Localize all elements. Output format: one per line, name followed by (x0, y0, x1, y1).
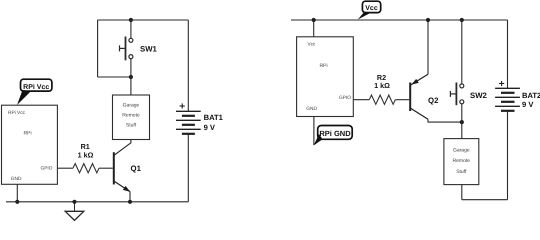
svg-text:1 kΩ: 1 kΩ (78, 151, 94, 160)
wire garage box 1 to Q1 collector (114, 140, 131, 156)
node junction Q2 rail (426, 18, 430, 22)
svg-text:BAT1: BAT1 (204, 113, 224, 122)
wire R1 to Q1 base (99, 167, 113, 169)
node junction Q2 SW2 (460, 120, 464, 124)
callout RPi Vcc (17, 79, 52, 105)
node junction ground stub (72, 200, 76, 204)
box RPi 1 (2, 105, 58, 184)
svg-text:RPi: RPi (320, 63, 328, 69)
svg-text:Remote: Remote (453, 158, 471, 164)
svg-text:RPi: RPi (24, 131, 32, 137)
wire right rail bottom BAT1 (187, 134, 189, 202)
wire right rail top BAT1 (187, 20, 189, 111)
node junction RPi2 Vcc (312, 18, 316, 22)
svg-text:Vcc: Vcc (365, 5, 378, 12)
wire GND1 down (16, 184, 18, 202)
switch SW1 (120, 37, 133, 61)
svg-text:RPi GND: RPi GND (319, 129, 351, 138)
svg-text:RPi Vcc: RPi Vcc (8, 110, 26, 116)
wire BAT2 top lead (507, 20, 509, 88)
wire Q2 collector to node (428, 119, 462, 122)
node junction SW2 rail (460, 18, 464, 22)
box RPi 2 (297, 37, 354, 117)
svg-text:SW2: SW2 (470, 91, 488, 100)
wire GPIO1 to R1 (57, 167, 73, 169)
svg-text:RPi Vcc: RPi Vcc (23, 83, 49, 91)
svg-text:9 V: 9 V (204, 123, 216, 132)
wire rail to RPi2 (313, 20, 315, 37)
wire node to garage box 2 (461, 122, 463, 139)
svg-text:Garage: Garage (123, 102, 140, 108)
svg-text:BAT2: BAT2 (522, 91, 540, 100)
svg-text:1 kΩ: 1 kΩ (374, 81, 390, 90)
wire Q1 emitter down (129, 192, 131, 202)
node junction GND1 rail (15, 200, 19, 204)
wire R2 to Q2 base (395, 99, 409, 101)
svg-text:Remote: Remote (122, 113, 140, 119)
callout RPi GND (314, 126, 353, 146)
svg-text:GND: GND (306, 106, 317, 112)
wire SW2 bottom lead (461, 104, 463, 122)
box garage remote stuff 2 (444, 139, 479, 185)
svg-text:GPIO: GPIO (339, 95, 351, 101)
svg-text:GND: GND (11, 176, 22, 182)
switch SW2 (450, 83, 463, 106)
node junction SW1 bottom (129, 75, 133, 79)
svg-text:SW1: SW1 (140, 45, 158, 54)
wire Q2 emitter to rail (427, 20, 429, 74)
ground (65, 202, 84, 221)
transistor Q1 (114, 152, 131, 192)
callout Vcc (358, 1, 381, 19)
wire bottom rail right circuit (462, 199, 508, 201)
svg-text:Stuff: Stuff (456, 169, 467, 175)
transistor Q2 (410, 74, 428, 119)
wire SW1 to garage box 1 (130, 77, 132, 95)
wire GND2 down (313, 117, 315, 146)
svg-text:Q1: Q1 (131, 164, 142, 173)
svg-text:Stuff: Stuff (126, 123, 137, 129)
node junction Q1 emitter rail (128, 200, 132, 204)
svg-text:R1: R1 (81, 142, 90, 151)
wire top rail left circuit (98, 19, 189, 21)
wire SW1 bottom lead (130, 59, 132, 77)
svg-text:Vcc: Vcc (307, 41, 316, 47)
wire left bypass vertical (97, 20, 99, 77)
node junction SW1 top (129, 18, 133, 22)
wire SW1 top lead (130, 20, 132, 38)
battery BAT1 (176, 103, 201, 133)
resistor R1 (73, 164, 99, 173)
svg-text:Garage: Garage (453, 148, 470, 154)
wire BAT2 bottom lead (507, 111, 509, 199)
resistor R2 (369, 95, 395, 104)
box garage remote stuff 1 (113, 95, 150, 140)
wire top rail right circuit (291, 19, 508, 21)
wire bottom rail left circuit (6, 201, 188, 203)
svg-text:9 V: 9 V (522, 100, 534, 109)
wire garage box 2 to bottom rail (461, 185, 463, 200)
wire left bypass horizontal (98, 76, 131, 78)
svg-text:GPIO: GPIO (41, 166, 53, 172)
wire GPIO2 to R2 (353, 99, 369, 101)
wire SW2 top lead (461, 20, 463, 84)
svg-text:Q2: Q2 (428, 96, 439, 105)
battery BAT2 (495, 81, 520, 111)
